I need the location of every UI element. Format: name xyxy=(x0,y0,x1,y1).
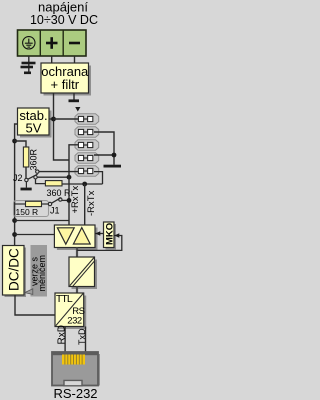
svg-text:5V: 5V xyxy=(26,121,42,136)
wire minus cell to filter xyxy=(74,56,76,63)
svg-text:232: 232 xyxy=(67,316,82,327)
svg-text:DC/DC: DC/DC xyxy=(7,248,22,291)
wire 5V to driver left xyxy=(15,234,55,236)
rail +RxTx xyxy=(69,145,78,226)
wire MKO out to driver with arrow xyxy=(95,233,104,235)
resistor 150R xyxy=(26,201,42,206)
ground symbol right xyxy=(104,165,122,168)
wire row4 right to ground xyxy=(94,154,114,156)
wire 150R left stub xyxy=(14,203,26,205)
wire J2 pad3 to jumper row5 xyxy=(39,171,78,173)
banner verze s menicem xyxy=(25,245,47,297)
rail -RxTx xyxy=(84,184,86,226)
svg-text:+RxTx: +RxTx xyxy=(70,186,81,214)
wire row2 right to ground xyxy=(94,132,114,165)
block stab 5V xyxy=(18,108,52,138)
jumper J2 xyxy=(25,170,39,182)
block MKO xyxy=(104,222,117,250)
wire earth cell down xyxy=(28,56,30,72)
wire jumper row1 left xyxy=(54,118,79,120)
junction on filter rail xyxy=(51,117,56,122)
block TTL/RS232 xyxy=(55,293,86,329)
earth terminal symbol xyxy=(23,37,35,49)
wire branch to MKO input with arrow xyxy=(77,236,122,251)
connector X1 terminal block xyxy=(18,30,87,56)
wire filter out down rail xyxy=(54,93,70,160)
junction 5V rail low2 xyxy=(12,232,17,237)
svg-text:RS-232: RS-232 xyxy=(53,386,97,400)
wire J2 pad2 to +RxTx rail xyxy=(36,179,46,184)
jumper pads and links xyxy=(78,116,92,173)
wire resistor to J2 xyxy=(25,167,27,178)
svg-text:150 R: 150 R xyxy=(16,207,39,217)
svg-text:MKO: MKO xyxy=(105,223,116,245)
junction on +RxTx rail xyxy=(67,175,72,180)
arrow down into jumper block xyxy=(75,107,80,112)
wire 5V to driver top area xyxy=(15,220,69,222)
wire DCDC out to TTL xyxy=(15,295,55,315)
wire 5V rail left xyxy=(15,124,18,246)
svg-text:-RxTx: -RxTx xyxy=(86,190,97,216)
jumper J1 xyxy=(48,198,62,206)
block jumper field (5 jumpers) xyxy=(75,114,99,177)
wire J1 to rail1 xyxy=(62,199,69,201)
wire stab input xyxy=(49,118,54,120)
wire TxD down xyxy=(85,327,87,354)
block driver (triangles) xyxy=(54,225,97,250)
junction -RxTx start xyxy=(82,182,87,187)
wire 360R to -RxTx rail xyxy=(62,183,103,185)
wire isolation to TTL xyxy=(76,287,78,294)
svg-text:J1: J1 xyxy=(50,206,60,216)
svg-text:TTL: TTL xyxy=(56,293,73,305)
supply bar symbol xyxy=(69,99,80,102)
resistor 360R horizontal xyxy=(45,181,62,186)
plus terminal symbol xyxy=(46,37,58,49)
wire 150R to J1 xyxy=(42,203,49,205)
wire stub minus below filter xyxy=(73,93,75,100)
block galvanic isolation xyxy=(69,257,97,289)
svg-text:měničem: měničem xyxy=(37,255,47,292)
svg-text:10÷30 V DC: 10÷30 V DC xyxy=(30,13,98,27)
termination group box xyxy=(14,201,49,217)
wire RxD down xyxy=(64,327,66,354)
wire row5 right to -RxTx xyxy=(94,172,103,184)
wire J2 area to rail1 xyxy=(37,176,69,178)
svg-text:360 R: 360 R xyxy=(47,188,72,198)
svg-text:J2: J2 xyxy=(13,173,23,183)
minus terminal symbol xyxy=(69,42,80,45)
wire TxD from driver down xyxy=(76,248,78,258)
wire to resistor R360 vertical xyxy=(15,141,26,147)
svg-text:+ filtr: + filtr xyxy=(51,77,80,92)
resistor 360R vertical xyxy=(23,147,28,167)
svg-text:TxD: TxD xyxy=(77,328,87,345)
junction J1 rail1 xyxy=(67,198,72,203)
block DC/DC xyxy=(3,246,27,298)
earth ground symbol xyxy=(21,63,36,73)
svg-text:RxD: RxD xyxy=(57,325,68,344)
wire plus cell to filter xyxy=(51,56,53,63)
junction 5V to resistor xyxy=(12,139,17,144)
junction 5V rail low1 xyxy=(12,218,17,223)
junction ground rail xyxy=(112,153,117,158)
block ochrana + filtr xyxy=(41,63,91,96)
ground below J2 xyxy=(25,182,27,188)
connector RS-232 socket xyxy=(52,352,100,386)
svg-text:360R: 360R xyxy=(29,148,39,170)
